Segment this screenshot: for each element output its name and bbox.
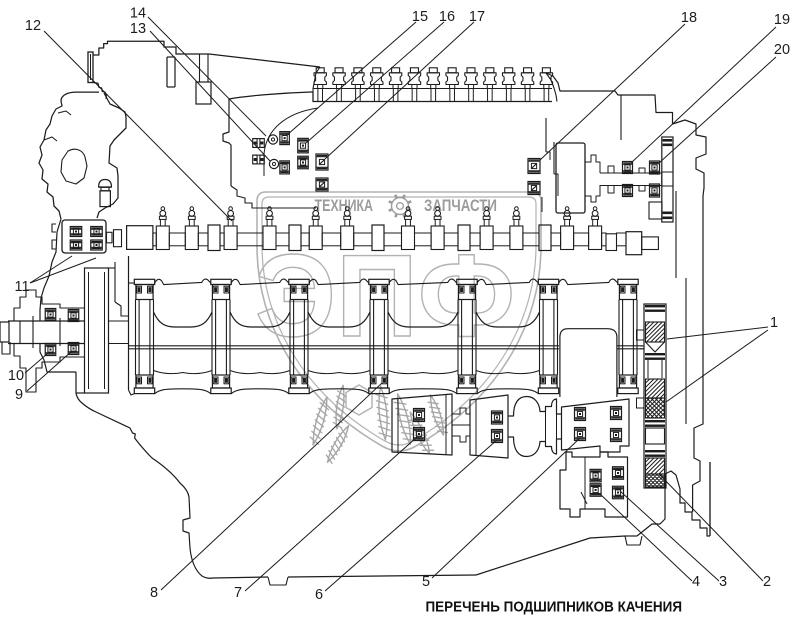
svg-text:ТЕХНИКА: ТЕХНИКА [315, 197, 374, 215]
svg-text:18: 18 [681, 10, 697, 26]
svg-text:3: 3 [719, 574, 727, 590]
callout 6 [315, 587, 323, 603]
bearing 5a [575, 408, 586, 421]
bearing 19b [623, 185, 633, 197]
callout 3 [719, 574, 727, 590]
bearing 19a [623, 162, 633, 174]
bearing 10a [45, 309, 56, 321]
leader line 8 [161, 383, 382, 590]
leader line 19 [631, 27, 776, 163]
crank chamber frame 6 [560, 329, 617, 397]
svg-text:2: 2 [763, 574, 771, 590]
rear wall steps [542, 118, 558, 212]
callout 2 [763, 574, 771, 590]
leader line 20 [659, 57, 776, 163]
bearing 16b [298, 156, 309, 169]
watermark hexagon [346, 385, 372, 415]
leader line 11 [30, 256, 96, 283]
watermark wheat leaves [310, 385, 448, 464]
rocker shaft washer top [268, 135, 277, 144]
front cover left edge [40, 219, 76, 372]
callout 7 [234, 585, 242, 601]
callout 1 [770, 315, 778, 331]
leader line 9 [27, 351, 72, 391]
main bearing column 7 [618, 279, 638, 393]
watermark shield outline [257, 192, 541, 451]
bearing 17b [316, 178, 328, 191]
svg-text:5: 5 [422, 574, 430, 590]
oil pan left [76, 372, 213, 578]
svg-text:14: 14 [130, 6, 146, 22]
rocker cover right end [546, 73, 557, 102]
front cover lower edge [76, 392, 85, 394]
svg-text:15: 15 [412, 9, 428, 25]
leader line 14 [148, 17, 266, 136]
head front wall [196, 54, 211, 104]
svg-text:13: 13 [130, 21, 146, 37]
callout 14 [130, 6, 146, 22]
camshaft bearing 11a [70, 227, 82, 237]
drive plate (3,5 group) [562, 399, 630, 452]
engine outline top edge [93, 41, 320, 67]
callout 20 [774, 42, 790, 58]
bottom right teeth [637, 471, 710, 536]
camshaft front bearing block [52, 220, 106, 253]
bearing 3c [613, 467, 624, 480]
svg-text:11: 11 [14, 279, 29, 295]
svg-text:7: 7 [234, 585, 242, 601]
svg-text:19: 19 [774, 12, 790, 28]
bearing 13t (bowtie) [253, 155, 265, 164]
oil pump block A [392, 394, 452, 455]
bearing 3b [611, 429, 622, 442]
callout 19 [774, 12, 790, 28]
svg-text:8: 8 [150, 585, 158, 601]
callout 15 [412, 9, 428, 25]
flywheel housing inner wall [676, 191, 686, 424]
callout 8 [150, 585, 158, 601]
bearing 4b [590, 484, 601, 497]
crankcase deck line [129, 279, 618, 285]
bearing 7t [414, 409, 425, 422]
svg-text:10: 10 [8, 368, 24, 384]
bedplate wave line [154, 371, 540, 374]
main bearing column 1 [134, 279, 154, 393]
crank nose shaft [0, 316, 85, 354]
front accessory housing [39, 92, 126, 219]
bearing 20a [650, 161, 660, 174]
flywheel housing scalloped edge [673, 120, 711, 536]
bearing 15b [280, 161, 290, 174]
engine outline top-left edge plate [88, 52, 106, 99]
leader line 10 [25, 354, 47, 373]
watermark text TEHNIKA [315, 197, 374, 215]
leader line 15 [287, 22, 416, 135]
leader line 3 [620, 491, 719, 581]
camshaft bearing 11c [70, 240, 82, 250]
front upper bracket [14, 290, 85, 321]
leader line 17 [325, 22, 474, 159]
svg-text:16: 16 [439, 9, 455, 25]
svg-text:ПЕРЕЧЕНЬ ПОДШИПНИКОВ КАЧЕНИЯ: ПЕРЕЧЕНЬ ПОДШИПНИКОВ КАЧЕНИЯ [426, 600, 683, 616]
caption [426, 600, 683, 616]
pan rail lines [129, 346, 644, 349]
main bearing column 4 [369, 279, 389, 393]
engine outline right of rockers [546, 73, 673, 140]
callout 10 [8, 368, 24, 384]
lower bracket [560, 452, 628, 517]
main bearing column 3 [289, 279, 309, 393]
leader line 16 [306, 22, 444, 143]
bearing 6t [492, 411, 503, 424]
callout 18 [681, 10, 697, 26]
skirt arches [129, 389, 539, 395]
callout 16 [439, 9, 455, 25]
callout 9 [15, 387, 23, 403]
leader line 18 [540, 24, 685, 160]
main bearing column 2 [211, 279, 231, 393]
svg-text:1: 1 [770, 315, 778, 331]
watermark letters EPF [255, 230, 515, 361]
svg-text:4: 4 [692, 574, 700, 590]
bearing 16 [298, 138, 309, 153]
callout 13 [130, 21, 146, 37]
rocker assemblies [313, 68, 553, 102]
oil filler cap [99, 180, 112, 207]
leader line 1a [667, 327, 768, 339]
valve tappet forks [159, 207, 598, 226]
bearing 9a [68, 310, 79, 322]
callout 4 [692, 574, 700, 590]
bearing 9b [68, 343, 79, 355]
svg-text:17: 17 [469, 9, 485, 25]
svg-text:20: 20 [774, 42, 790, 58]
leader line 13 [150, 31, 270, 161]
fuel pump box [556, 143, 585, 213]
callout 12 [25, 18, 41, 34]
bearing 14t (bowtie) [253, 139, 265, 148]
rocker cover base [313, 101, 552, 103]
leader line 1b [666, 330, 768, 402]
bearing 17 [316, 154, 328, 170]
rocker shaft washer bottom [269, 159, 278, 168]
leader line 6 [325, 440, 497, 591]
camshaft front stub [107, 230, 122, 247]
camshaft body [127, 225, 659, 255]
watermark text ZAPCHASTI [424, 197, 497, 215]
front lower bracket [14, 343, 85, 392]
gear column connectors [637, 330, 645, 408]
callout 17 [469, 9, 485, 25]
main bearing column 6 [538, 279, 558, 393]
camshaft gear column [644, 304, 666, 488]
cylinder head box [223, 92, 318, 208]
oil pan bottom right [476, 536, 642, 575]
pump shaft steps [585, 155, 662, 202]
camshaft bearing 11b [91, 227, 103, 237]
bearing 5b [575, 428, 586, 441]
front cover verticals [109, 256, 129, 390]
callout 5 [422, 574, 430, 590]
leader line 4 [600, 494, 692, 581]
svg-text:6: 6 [315, 587, 323, 603]
callout 11 [14, 279, 29, 295]
bearing 10b [45, 344, 56, 356]
bearing 3d [613, 486, 624, 499]
bearing 15 [280, 132, 290, 145]
crank chamber arches [154, 312, 540, 327]
svg-text:12: 12 [25, 18, 41, 34]
balancer shaft [508, 397, 562, 457]
watermark gear icon [389, 195, 411, 217]
leader line 12 [44, 31, 232, 221]
timing gear [649, 137, 673, 222]
crank pulley plate [85, 268, 109, 393]
bearing 4a [590, 469, 601, 482]
camshaft bearing 11d [91, 240, 103, 250]
bearing 3a [611, 407, 622, 420]
bearing 18 [528, 159, 540, 174]
lifting tab [167, 57, 175, 87]
rocker cover left end [313, 67, 320, 102]
bearing 20b [650, 184, 660, 197]
leader line 2 [659, 474, 763, 581]
leader line 5 [432, 439, 579, 578]
leader line 7 [245, 437, 417, 591]
bearing 18b [528, 182, 540, 195]
bearing 7b [414, 428, 425, 441]
block connector [452, 408, 470, 442]
oil pump block B [470, 395, 508, 458]
oil pan bottom [213, 575, 476, 585]
svg-text:9: 9 [15, 387, 23, 403]
main bearing column 5 [457, 279, 477, 393]
bearing 6b [492, 430, 503, 443]
